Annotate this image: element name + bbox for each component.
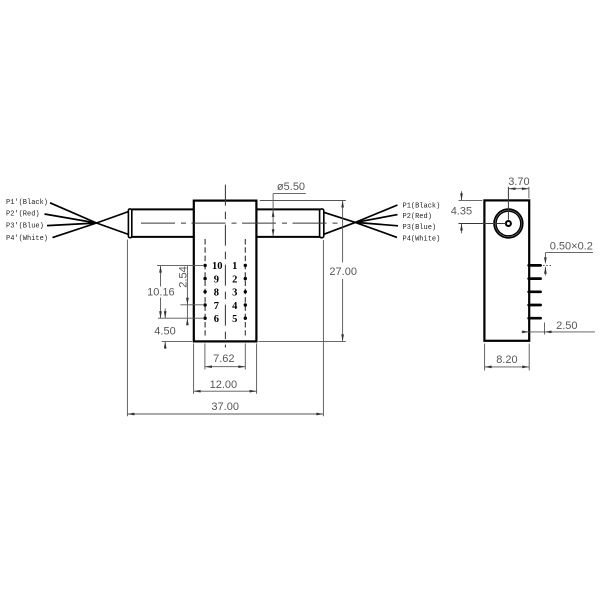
fiber label P2&apos;(Red) xyxy=(6,211,40,219)
pin 5 number xyxy=(232,314,237,325)
dimension 8.20 extension lines xyxy=(485,344,530,371)
hidden line right pin column xyxy=(244,239,246,336)
dimension 4.35 line xyxy=(460,191,463,233)
dimension 4.35 text xyxy=(451,206,472,218)
fiber lead P2&apos; xyxy=(45,214,97,223)
cylinder right segment xyxy=(256,209,320,237)
svg-text:12.00: 12.00 xyxy=(210,379,238,391)
right ferrule cap xyxy=(320,209,324,238)
side view body xyxy=(484,200,529,340)
dimension 10.16 text xyxy=(147,287,175,299)
cylinder left segment xyxy=(132,209,194,237)
svg-text:3.70: 3.70 xyxy=(508,176,529,188)
dimension 2.50 extension line xyxy=(544,323,546,335)
svg-text:5: 5 xyxy=(232,314,237,325)
pin thickness extension mark xyxy=(543,265,552,267)
dimension 12.00 text xyxy=(210,379,238,391)
fiber lead P1 xyxy=(355,205,397,222)
left fiber boot cone xyxy=(97,211,130,234)
pin 8 number xyxy=(214,288,219,299)
fiber label P1(Black) xyxy=(403,202,441,210)
svg-text:1: 1 xyxy=(232,261,237,272)
pin 8 dot xyxy=(203,290,206,293)
side view pin 5 xyxy=(529,317,541,320)
hidden line left pin column xyxy=(204,239,206,336)
svg-text:10.16: 10.16 xyxy=(147,287,175,299)
dimension 4.50 line xyxy=(164,309,167,350)
svg-text:9: 9 xyxy=(214,274,219,285)
extension line pin 10 row xyxy=(157,265,203,267)
svg-text:P4'(White): P4'(White) xyxy=(6,235,48,243)
dimension 4.35 extension line xyxy=(459,199,483,201)
svg-text:2: 2 xyxy=(232,274,237,285)
pin 3 number xyxy=(232,288,237,299)
svg-text:P2(Red): P2(Red) xyxy=(403,213,432,221)
dimension 7.62 extension lines xyxy=(205,343,245,369)
dimension 7.62 text xyxy=(213,353,234,365)
left ferrule cap xyxy=(128,209,131,238)
pin 1 dot xyxy=(244,264,247,267)
pin 6 dot xyxy=(203,317,206,320)
dimension 8.20 text xyxy=(496,354,517,366)
dimension 27.00 line xyxy=(341,201,344,342)
dimension 2.50 line xyxy=(522,331,596,334)
pin 7 number xyxy=(214,301,219,312)
dimension 37.00 line xyxy=(127,413,323,416)
dimension 3.70 extension line xyxy=(528,187,530,199)
fiber label P4&apos;(White) xyxy=(6,235,48,243)
dimension 10.16 line xyxy=(159,266,162,319)
pin 2 number xyxy=(232,274,237,285)
dimension 12.00 line xyxy=(194,390,257,393)
pin 4 dot xyxy=(244,303,247,306)
extension line pin 6 row xyxy=(158,317,203,319)
svg-text:P3'(Blue): P3'(Blue) xyxy=(6,223,44,231)
pin 5 dot xyxy=(244,317,247,320)
svg-text:2.50: 2.50 xyxy=(556,320,577,332)
dimension 37.00 extension lines xyxy=(127,240,323,417)
dimension 3.70 text xyxy=(508,176,529,188)
extension line block bottom left xyxy=(162,340,193,342)
svg-text:P3(Blue): P3(Blue) xyxy=(403,224,437,232)
fiber label P4(White) xyxy=(403,236,441,244)
fiber lead P1&apos; xyxy=(50,203,97,223)
fiber label P1&apos;(Black) xyxy=(6,199,48,207)
fiber lead P4 xyxy=(355,222,397,237)
fiber lead P4&apos; xyxy=(53,223,97,238)
side view pin 3 xyxy=(529,290,541,293)
pin 9 dot xyxy=(203,277,206,280)
dimension diameter 5.50 text xyxy=(277,181,305,193)
svg-text:10: 10 xyxy=(212,261,223,272)
svg-text:P1(Black): P1(Black) xyxy=(403,202,441,210)
svg-text:P2'(Red): P2'(Red) xyxy=(6,211,40,219)
dimension 3.70 line xyxy=(509,187,529,190)
pin 4 number xyxy=(232,301,238,312)
pin 9 number xyxy=(214,274,219,285)
fiber port outer circle xyxy=(494,209,523,238)
svg-text:6: 6 xyxy=(214,314,219,325)
svg-text:8: 8 xyxy=(214,288,219,299)
pin 2 dot xyxy=(244,277,247,280)
fiber port center hole xyxy=(506,221,511,226)
pin 10 number xyxy=(212,261,223,272)
svg-text:ø5.50: ø5.50 xyxy=(277,181,305,193)
side view pin 1 xyxy=(529,264,541,267)
svg-text:37.00: 37.00 xyxy=(211,401,239,413)
fiber label P2(Red) xyxy=(403,213,432,221)
circle horizontal centerline xyxy=(459,223,506,225)
circle vertical centerline xyxy=(507,187,509,220)
svg-text:8.20: 8.20 xyxy=(496,354,517,366)
svg-text:7.62: 7.62 xyxy=(213,353,234,365)
svg-text:4.50: 4.50 xyxy=(154,326,175,338)
fiber label P3(Blue) xyxy=(403,224,437,232)
svg-text:7: 7 xyxy=(214,301,219,312)
dimension 8.20 line xyxy=(485,366,530,369)
dimension 4.50 text xyxy=(154,326,175,338)
dimension 27.00 text xyxy=(329,266,357,278)
dimension 2.54 text xyxy=(177,266,189,287)
svg-text:P1'(Black): P1'(Black) xyxy=(6,199,48,207)
dimension diameter 5.50 leader xyxy=(272,194,306,237)
dimension 27.00 extension lines xyxy=(258,201,345,342)
extension line pin 7 row xyxy=(180,304,203,306)
fiber label P3&apos;(Blue) xyxy=(6,223,44,231)
svg-text:2.54: 2.54 xyxy=(177,266,189,287)
side view pin 4 xyxy=(529,304,541,307)
dimension 2.50 text xyxy=(556,320,577,332)
fiber lead P2 xyxy=(355,215,397,223)
dimension 37.00 text xyxy=(211,401,239,413)
pin 7 dot xyxy=(203,303,206,306)
dimension 2.54 line xyxy=(186,266,189,326)
dimension 0.50x0.2 leader xyxy=(544,253,593,276)
svg-text:P4(White): P4(White) xyxy=(403,236,441,244)
dimension 12.00 extension lines xyxy=(194,343,257,393)
dimension 0.50x0.2 text xyxy=(550,240,593,252)
fiber port inner circle xyxy=(496,211,521,236)
fiber lead P3&apos; xyxy=(47,223,97,226)
svg-text:4: 4 xyxy=(232,301,238,312)
svg-text:3: 3 xyxy=(232,288,237,299)
side view pin 2 xyxy=(529,277,541,280)
switch body block xyxy=(194,201,257,342)
svg-text:0.50×0.2: 0.50×0.2 xyxy=(550,240,593,252)
svg-text:27.00: 27.00 xyxy=(329,266,357,278)
pin 1 number xyxy=(232,261,237,272)
pin 6 number xyxy=(214,314,219,325)
right fiber boot cone xyxy=(323,212,355,234)
svg-text:4.35: 4.35 xyxy=(451,206,472,218)
dimension 7.62 line xyxy=(205,365,245,368)
vertical centerline xyxy=(224,185,226,348)
fiber lead P3 xyxy=(355,222,398,225)
horizontal centerline xyxy=(141,222,340,224)
pin 10 dot xyxy=(203,264,206,267)
pin 3 dot xyxy=(244,290,247,293)
